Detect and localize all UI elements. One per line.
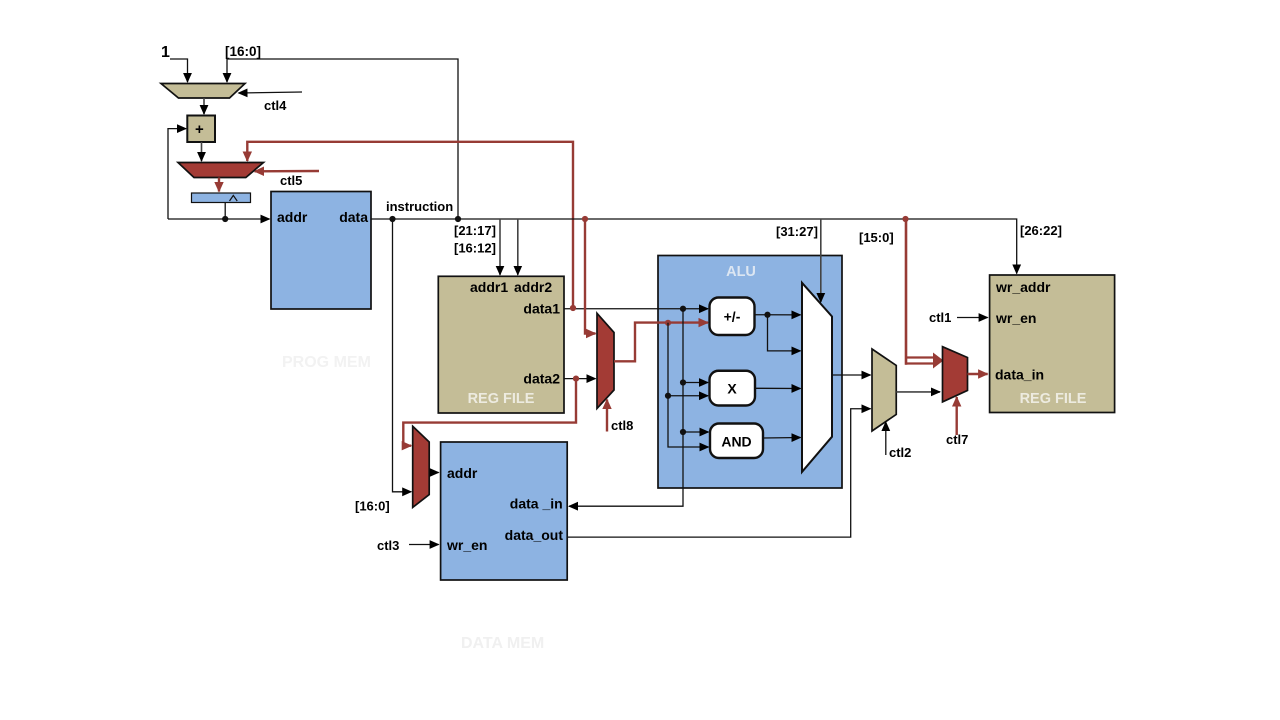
svg-text:wr_en: wr_en (995, 310, 1036, 326)
clock triangle (230, 195, 238, 201)
svg-text:wr_en: wr_en (446, 537, 487, 553)
svg-text:1: 1 (161, 44, 170, 61)
junction red dot line A top (665, 320, 671, 326)
svg-text:+: + (195, 121, 204, 138)
wire mux M4 to adder (203, 98, 205, 114)
junction dot line B AND (680, 429, 686, 435)
mux M4 (ctl4) (161, 84, 245, 99)
wire data_out to mux ctl2 (567, 409, 870, 537)
mux M5 (ctl5, red) (178, 163, 264, 178)
junction dot line B X (680, 379, 686, 385)
svg-text:ctl3: ctl3 (377, 538, 399, 553)
junction red data1 dot (570, 305, 576, 311)
svg-text:AND: AND (721, 434, 751, 450)
svg-text:ALU: ALU (726, 264, 756, 280)
register PC (192, 193, 251, 203)
wire ctl7 control (956, 397, 958, 435)
wire ALU result to mux ctl2 (832, 374, 871, 376)
svg-text:DATA MEM: DATA MEM (461, 635, 544, 652)
svg-text:[21:17]: [21:17] (454, 223, 496, 238)
REG FILE left box (438, 276, 564, 413)
wire red instruction to mux ctl8 (585, 219, 596, 334)
svg-text:[16:0]: [16:0] (355, 499, 390, 514)
mux ALU white (802, 283, 832, 472)
junction dot line B top (680, 306, 686, 312)
svg-text:ctl7: ctl7 (946, 432, 968, 447)
svg-text:addr2: addr2 (514, 279, 552, 295)
wire ctl5 into mux M5 (255, 170, 320, 173)
wire instruction [16:0] to DM mux (393, 219, 412, 492)
svg-text:[16:12]: [16:12] (454, 241, 496, 256)
wire mux ctl8 output to adder (614, 323, 708, 362)
wire PC register to addr bus (224, 203, 226, 220)
wire mux ctl2 output (896, 391, 940, 393)
junction dot line A X (665, 393, 671, 399)
mux ctl8 (red) (597, 313, 614, 408)
wire red branch (data1 to mux M5) (247, 142, 573, 307)
svg-text:ctl8: ctl8 (611, 418, 633, 433)
wire instruction bus (371, 219, 1017, 274)
svg-text:+/-: +/- (724, 309, 741, 325)
wire AND upper input (683, 431, 709, 433)
wire X upper input (683, 382, 708, 384)
svg-text:ctl4: ctl4 (264, 98, 287, 113)
junction red data2 dot (573, 376, 579, 382)
svg-text:data_in: data_in (995, 367, 1044, 383)
wire [31:27] select (820, 219, 822, 302)
op X (710, 371, 756, 406)
adder + (187, 116, 215, 143)
junction red instruction dot 2 (902, 216, 908, 222)
wire DM mux output to addr (429, 472, 438, 474)
svg-text:X: X (727, 381, 737, 397)
PROG MEM box (271, 192, 371, 310)
wire X output (755, 387, 801, 389)
wire addr feed into PROG MEM (168, 218, 270, 220)
svg-text:ctl1: ctl1 (929, 310, 951, 325)
wire addr2 (517, 219, 519, 275)
junction red instruction dot 1 (582, 216, 588, 222)
wire data2 to mux ctl8 (564, 378, 596, 380)
wire feedback into adder left (168, 129, 186, 219)
REG FILE right box (990, 275, 1115, 413)
wire data1 to ALU adder (564, 308, 708, 310)
mux ctl2 (tan) (872, 349, 896, 431)
svg-text:addr: addr (277, 209, 308, 225)
junction addr dot (222, 216, 228, 222)
svg-text:REG FILE: REG FILE (468, 391, 535, 407)
svg-text:wr_addr: wr_addr (995, 279, 1051, 295)
mux DM addr (red) (413, 426, 430, 507)
svg-text:data2: data2 (523, 371, 560, 387)
wire adder to mux M5 (201, 142, 203, 161)
wire [16:0] down into mux M4 (226, 59, 228, 82)
wire ctl4 into mux M4 (239, 92, 303, 93)
op adder +/- (710, 298, 755, 336)
wire red [15:0] to mux ctl7 (double) (905, 219, 908, 365)
wire addr1 (499, 219, 501, 275)
wire +/- output (755, 314, 801, 316)
wire from 1 to mux M4 (170, 59, 188, 82)
svg-text:addr1: addr1 (470, 279, 508, 295)
wire ctl1 to wr_en (957, 317, 988, 319)
wire AND output (763, 437, 801, 440)
ALU box (658, 256, 842, 489)
svg-text:[26:22]: [26:22] (1020, 223, 1062, 238)
wire ctl3 to wr_en (409, 544, 439, 546)
svg-text:ctl2: ctl2 (889, 445, 911, 460)
svg-text:[31:27]: [31:27] (776, 224, 818, 239)
svg-text:[16:0]: [16:0] (225, 44, 261, 59)
junction instruction dot 2 (455, 216, 461, 222)
DATA MEM box (441, 442, 568, 580)
svg-text:PROG MEM: PROG MEM (282, 354, 371, 371)
wire X lower input (668, 395, 708, 397)
wire +/- output branch (768, 315, 801, 351)
wire line A (mux ctl8 distribution) (668, 323, 709, 447)
svg-text:data _in: data _in (510, 496, 563, 512)
junction dot +/- output (764, 312, 770, 318)
wire line B (data1 distribution / data_in) (569, 309, 683, 506)
svg-text:data1: data1 (523, 301, 560, 317)
svg-text:data: data (339, 209, 368, 225)
wire [16:0] long horizontal to instruction bus (227, 59, 458, 217)
svg-text:data_out: data_out (505, 527, 564, 543)
svg-text:[15:0]: [15:0] (859, 230, 894, 245)
wire mux M5 to PC register (218, 178, 220, 192)
wire ctl2 control (885, 422, 887, 455)
svg-text:addr: addr (447, 465, 478, 481)
wire ctl8 control (606, 400, 608, 432)
mux ctl7 (red) (943, 347, 968, 402)
svg-text:instruction: instruction (386, 199, 453, 214)
wire mux ctl7 output to data_in (968, 373, 988, 375)
wire red data2 to DATA MEM mux (403, 379, 576, 446)
junction instruction dot 1 (389, 216, 395, 222)
op AND (710, 424, 763, 459)
svg-text:ctl5: ctl5 (280, 173, 302, 188)
svg-text:REG FILE: REG FILE (1020, 391, 1087, 407)
